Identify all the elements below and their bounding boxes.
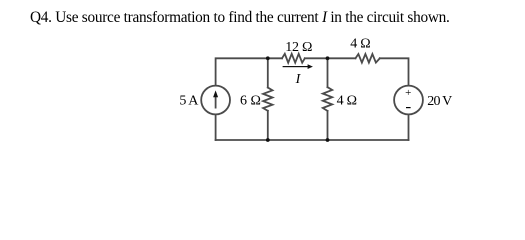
current source I1 circle (201, 86, 230, 115)
svg-text:4 Ω: 4 Ω (337, 93, 357, 108)
wire left below current source (215, 114, 217, 140)
wire top-left segment (216, 58, 282, 85)
wire 4ohm middle branch bottom (327, 111, 329, 140)
node dot bottom-right (4ohm mid/bottom wire) (326, 138, 330, 142)
node dot top-left (6ohm/top wire) (266, 56, 270, 60)
svg-text:6 Ω: 6 Ω (240, 93, 261, 108)
svg-text:4 Ω: 4 Ω (350, 37, 370, 52)
resistor R 12ohm (horizontal zigzag) (282, 54, 305, 63)
svg-text:20 V: 20 V (427, 94, 452, 109)
voltage source V1 circle (394, 86, 423, 115)
wire 6ohm branch top (267, 58, 269, 87)
resistor 4ohm top (horizontal zigzag) (356, 54, 380, 63)
resistor 6ohm (vertical zigzag) (263, 88, 272, 111)
svg-text:5 A: 5 A (179, 94, 199, 109)
svg-text:12 Ω: 12 Ω (285, 40, 312, 55)
current I arrow shaft (283, 66, 309, 67)
current source arrow shaft (215, 96, 217, 108)
current I arrowhead (308, 64, 313, 69)
title text (30, 9, 450, 27)
current source arrowhead (213, 90, 218, 97)
wire 6ohm branch bottom (267, 111, 269, 140)
node dot bottom-left (6ohm/bottom wire) (266, 138, 270, 142)
wire 4ohm middle branch top (327, 58, 329, 87)
node dot top-right (4ohm mid/top wire) (326, 56, 330, 60)
svg-text:I: I (295, 72, 302, 87)
svg-text:+: + (405, 87, 411, 99)
resistor 4ohm middle (vertical zigzag) (323, 87, 332, 111)
wire right below voltage source (408, 114, 410, 140)
wire top-right corner down to voltage source (380, 58, 409, 85)
wire between 12ohm and 4ohm (305, 57, 356, 59)
voltage source minus sign (406, 107, 411, 108)
wire bottom (216, 139, 409, 141)
